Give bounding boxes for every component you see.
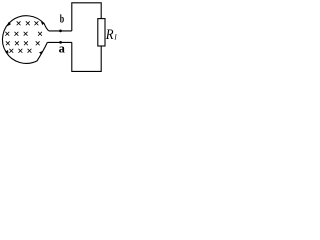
current arrowhead lower-left [5,50,8,54]
field x row3 [6,42,39,45]
svg-text:R: R [105,27,114,43]
node a terminal dot [59,41,62,44]
wire: bottom lead a [47,41,71,43]
field x row1 [17,22,38,25]
wire: top lead b [49,30,72,32]
current arrowhead lower-right [39,51,42,55]
wire: left riser up, top wire, right drop [72,3,101,31]
svg-text:I: I [113,33,117,42]
current arrowhead upper-left [7,22,11,26]
svg-text:b: b [60,14,64,26]
resistor RL box [98,19,105,46]
wire: right lower, bottom wire, left riser down [72,42,101,71]
node b terminal dot [59,30,62,33]
field x row2 [6,32,42,35]
coil loop (circular region, open at right where leads exit) [2,16,48,64]
field x row4 [10,49,32,52]
svg-text:a: a [59,41,66,55]
current arrowhead upper-right [41,22,45,25]
